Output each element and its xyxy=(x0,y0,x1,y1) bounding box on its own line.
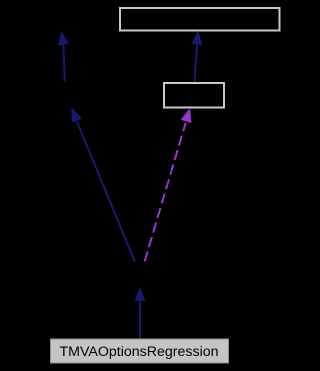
edge E4 wire: hidden node B -> hidden node T1 (solid midnightblue) xyxy=(63,45,64,82)
edge E5 arrowhead xyxy=(192,31,203,45)
node N2 (middle, hidden label) xyxy=(164,83,224,108)
edge E5 wire: node N2 -> node N1 (solid midnightblue) xyxy=(194,45,197,83)
edge E2 arrowhead xyxy=(71,108,82,123)
hidden node A (invisible, third rank center) xyxy=(112,262,168,287)
node TMVAOptionsRegression (main node) xyxy=(51,339,229,363)
edge E3 wire: hidden node A -> node N2 (dashed darkorchid) xyxy=(145,123,186,262)
edge E1 arrowhead xyxy=(135,287,146,301)
edge E3 arrowhead xyxy=(181,108,192,123)
node N1 (top, hidden label) xyxy=(120,8,280,31)
edge E4 arrowhead xyxy=(58,31,69,46)
edge E2 wire: hidden node A -> hidden node B (solid midnightblue diagonal) xyxy=(77,121,135,262)
hidden node T1 (invisible, top-left rank) xyxy=(35,7,95,31)
hidden node B (invisible, second rank left) xyxy=(40,82,100,108)
svg-text:TMVAOptionsRegression: TMVAOptionsRegression xyxy=(59,344,218,360)
edge E1 wire: TMVAOptionsRegression -> hidden node A (solid midnightblue) xyxy=(139,300,141,339)
